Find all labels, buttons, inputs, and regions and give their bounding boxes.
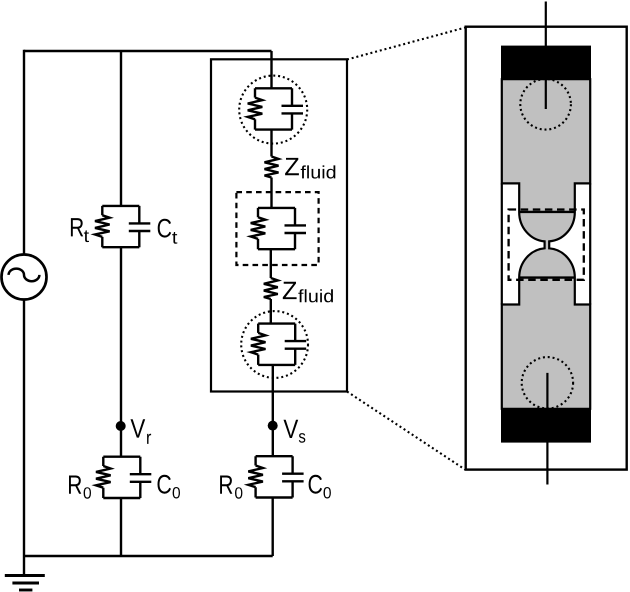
resistor Zfluid 2 <box>264 278 278 299</box>
wire middle branch mid <box>120 247 122 457</box>
electrode wire top <box>545 2 547 110</box>
top interface RC cell <box>248 88 303 129</box>
wire Zfluid2 to bottom interface cell <box>270 299 272 324</box>
wire left vertical lower <box>23 300 25 557</box>
dashed box pore region (magnified) <box>509 210 584 280</box>
wire right branch lower <box>272 498 274 556</box>
dotted circle bottom interface (magnified) <box>522 357 573 408</box>
membrane bottom line <box>519 276 575 278</box>
magnified view outer box <box>466 27 627 470</box>
dashed circle around bottom interface cell <box>241 311 308 378</box>
capillary outer wall right <box>589 183 591 304</box>
wire middle branch upper <box>120 51 122 206</box>
node Vr dot <box>116 421 126 431</box>
electrode top black <box>501 46 591 80</box>
label Zfluid 2 <box>283 282 333 303</box>
label R0 right <box>220 476 242 499</box>
wire right branch to Vs <box>272 365 274 456</box>
resistor Zfluid 1 <box>265 157 279 178</box>
label C0 right <box>309 475 331 499</box>
wire bottom horizontal <box>24 555 273 557</box>
dotted connector top <box>347 28 466 60</box>
electrode wire bottom <box>546 373 548 485</box>
dotted circle top interface (magnified) <box>520 79 571 130</box>
dashed box around pore cell <box>236 192 318 265</box>
label Vr <box>131 419 152 444</box>
fluid body (gray) <box>502 79 590 409</box>
wire right branch top <box>270 51 272 88</box>
dotted connector bottom <box>347 392 466 470</box>
electrode bottom black <box>501 408 591 442</box>
bottom interface RC cell <box>251 324 306 365</box>
capillary outer wall left <box>501 183 503 304</box>
wire pore cell to Zfluid2 <box>270 249 272 278</box>
node Vs dot <box>268 421 278 431</box>
membrane top line <box>519 211 575 213</box>
label Ct <box>158 219 178 244</box>
wire cell1 to Zfluid1 <box>270 130 272 157</box>
dashed circle around top interface cell <box>239 76 307 144</box>
label Zfluid 1 <box>285 158 335 179</box>
resistor Rt / capacitor Ct cell <box>95 206 150 247</box>
pore RC cell <box>251 208 306 249</box>
wire middle branch lower <box>120 498 122 556</box>
wire top horizontal <box>24 50 272 52</box>
label R0 left <box>69 476 91 499</box>
AC source V1 <box>2 255 47 300</box>
sensor box <box>211 59 347 391</box>
label C0 left <box>158 475 181 499</box>
resistor R0 / capacitor C0 cell (sense branch) <box>248 456 303 497</box>
wire left vertical upper <box>23 50 25 255</box>
label Vs <box>284 420 306 443</box>
label Rt <box>71 218 89 242</box>
wire Zfluid1 to pore cell <box>270 178 272 208</box>
ground <box>5 556 45 590</box>
resistor R0 / capacitor C0 cell (reference branch) <box>96 457 151 498</box>
